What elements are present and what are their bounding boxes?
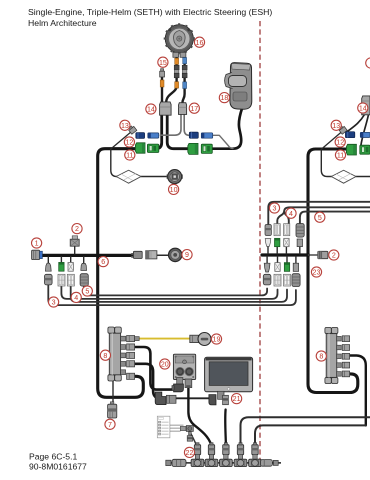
wire: helm1 bus [41, 254, 133, 257]
svg-text:10: 10 [170, 186, 178, 194]
wire: helm2 bus [262, 253, 309, 256]
mating connector 3 [45, 274, 53, 285]
svg-text:5: 5 [85, 288, 89, 296]
wire: helm2 hub port3 lead down right edge [345, 356, 366, 426]
actuator cable B inline connector with blue bands [182, 58, 187, 89]
junction hub 8 helm2 [325, 327, 350, 383]
helm separation dashed line [259, 21, 261, 466]
green harness pair (right set, to CAN pad 18) [188, 143, 213, 154]
svg-text:12: 12 [125, 139, 133, 147]
svg-text:8: 8 [319, 353, 323, 361]
wire: module 20 lead down to backbone tee 2 [188, 388, 211, 445]
label 14 helm2 [358, 103, 368, 113]
bulkhead connector 10 [167, 170, 183, 184]
network terminator cap 19 [198, 333, 211, 346]
svg-text:2: 2 [75, 225, 79, 233]
bus drop plug 4b white [68, 262, 73, 271]
wire: helm2 branch to fuse diamond [321, 150, 370, 177]
label 15 helm1 [158, 57, 168, 67]
wire: display drop to backbone tee 3 [224, 410, 227, 445]
inline elbow pair on hub lead [155, 392, 176, 405]
label 3 helm2 [269, 203, 279, 213]
helm2 blue CAN pair 12 [345, 132, 370, 138]
wire: helm2 upper feed line B [277, 207, 370, 224]
wire: hub yellow network lead [140, 338, 191, 340]
label 2 helm2 [329, 250, 339, 260]
svg-text:9: 9 [185, 251, 189, 259]
label 5 helm1 [82, 286, 92, 296]
fuse holder diamond helm1 [116, 170, 141, 183]
backbone tee 2 [205, 443, 218, 467]
label 12 helm1 [124, 137, 134, 147]
hub ports and mating plugs [121, 336, 140, 342]
battery lead connector 7 [108, 402, 117, 418]
helm2 lower drop B white [275, 263, 280, 272]
data harness connector 1 [32, 250, 43, 259]
backbone tee 1 [191, 443, 204, 467]
blue CAN pair 12 (left set) [136, 133, 159, 139]
backbone tee 3 [220, 443, 233, 467]
inset tee detail [180, 426, 193, 442]
svg-text:20: 20 [161, 361, 169, 369]
wire: bus drop stubs [48, 257, 83, 264]
svg-text:4: 4 [289, 210, 293, 218]
wire: backbone tee4 riser to engine run [241, 417, 370, 444]
svg-text:12: 12 [336, 139, 344, 147]
wire: helm2 module cables into blue/green pairs [347, 115, 369, 145]
label 20 [160, 359, 170, 369]
svg-text:11: 11 [126, 152, 133, 160]
helm2 lower mate B [274, 274, 281, 286]
svg-text:14: 14 [147, 106, 155, 114]
label 23 [311, 267, 321, 277]
steering sensor connector 15 [160, 69, 165, 87]
label 9 [182, 250, 192, 260]
helm2 lower drop A [264, 263, 270, 272]
green harness pair 11 (left set) [135, 143, 158, 153]
elbow connector under module 20 [172, 378, 184, 392]
svg-text:5: 5 [318, 214, 322, 222]
wire: long run helm1-3 to helm2 [48, 285, 296, 306]
wire: blue pair 2 pigtail into harness [213, 135, 233, 148]
label 10 [169, 184, 179, 194]
svg-text:18: 18 [220, 94, 228, 102]
mating connector 4b [67, 274, 74, 286]
label 15 helm2 partial at edge [366, 58, 370, 68]
label 6 [98, 257, 108, 267]
harness connector 13 [128, 125, 137, 134]
wire: main helm1 harness from green pair down and U-turn into hub port 5 [98, 149, 144, 398]
junction hub 8 helm1 [108, 327, 139, 381]
wire: helm2 upper feed line A [268, 202, 370, 225]
wire: start/stop lead to connector 9 [157, 254, 169, 256]
helm2 upper mate D [297, 239, 302, 247]
label 5 helm2 [315, 212, 325, 222]
wire: steering sensor cable 15 [161, 77, 163, 103]
svg-text:11: 11 [337, 152, 344, 160]
network terminator connector [190, 335, 199, 342]
label 22 [184, 447, 194, 457]
label 8 helm1 [100, 350, 110, 360]
wire: backbone trunk [167, 462, 282, 464]
svg-text:13: 13 [121, 122, 129, 130]
helm2 harness connector 13 [338, 125, 347, 134]
electric steering actuator 16 [165, 24, 194, 57]
helm2 upper row plug D [296, 224, 304, 238]
svg-text:Single-Engine, Triple-Helm (SE: Single-Engine, Triple-Helm (SETH) with E… [28, 7, 272, 17]
helm2 upper row plug B [274, 224, 280, 236]
wire: adaptor 17 right leg to blue pair 2 [184, 115, 189, 136]
wire: helm2 upper feed line C [300, 212, 370, 224]
wire: actuator cable B blue [182, 57, 184, 103]
wire: adaptor 14 right leg to green pair 2 [167, 115, 189, 149]
helm2 ignition connector 2 [318, 251, 328, 258]
label 14 helm1 [146, 104, 156, 114]
backbone tee 5 [249, 443, 262, 467]
svg-text:3: 3 [273, 205, 277, 213]
wire: adaptor 17 left leg to blue pair 1 [161, 115, 182, 136]
helm2 lower mate D [292, 274, 300, 287]
module 20 display lead plug [185, 379, 192, 388]
helm2 lower drop C green [284, 263, 289, 272]
label 16 [194, 37, 204, 47]
wire: adaptor 14 left leg to green pair 1 [156, 115, 162, 149]
wire: long run helm1-4a to helm2 [61, 286, 277, 299]
backbone left terminator [166, 459, 186, 466]
label 13 helm2 [331, 120, 341, 130]
helm2 adaptor module 14 (partial at edge) [362, 96, 370, 115]
helm2 upper row plug A [265, 225, 271, 236]
wire: inline pair to display elbow [176, 397, 211, 399]
blue CAN pair (right set, under 17) [189, 132, 212, 138]
wiring legend inset box [157, 416, 183, 438]
helm2 lower mate C [284, 274, 291, 286]
helm2 upper mate A [265, 239, 271, 247]
svg-text:23: 23 [313, 269, 321, 277]
helm interface module 20 [173, 354, 195, 379]
CAN trackpad device 18 [225, 63, 252, 110]
wire: inset tee lead to backbone tee 1 [191, 434, 197, 446]
bus drop plug 4a green [59, 262, 64, 271]
backbone tee 4 [234, 443, 247, 467]
svg-text:2: 2 [332, 252, 336, 260]
wire: connector 13 pigtail diagonal [111, 132, 132, 150]
helm2 green harness pair 11 [346, 144, 370, 155]
label 4 helm1 [71, 292, 81, 302]
vesselview display 21 [205, 357, 253, 392]
svg-text:21: 21 [233, 395, 241, 403]
helm2 lower mate A [263, 274, 271, 285]
wire: long run helm1-4b to helm2 [71, 286, 287, 302]
bus drop plug 3a [45, 263, 51, 271]
helm2 upper mate C white [284, 238, 289, 246]
label 11 helm2 [335, 150, 345, 160]
wire: CAN pad 18 cable to green pair 2 [213, 109, 242, 149]
label 8 helm2 [316, 351, 326, 361]
svg-text:22: 22 [186, 449, 194, 457]
svg-text:Page 6C-5.1: Page 6C-5.1 [29, 452, 77, 462]
label 7 [105, 419, 115, 429]
backbone right terminator [260, 460, 278, 467]
wire: long run helm1-5 to helm2 [84, 286, 267, 296]
wire: branch to fuse diamond and connector 10 [111, 150, 169, 177]
label 13 helm1 [120, 120, 130, 130]
actuator cable A inline connector with orange bands [174, 58, 179, 88]
svg-text:17: 17 [190, 105, 198, 113]
svg-text:4: 4 [74, 294, 78, 302]
bus drop plug 5a [81, 263, 87, 270]
svg-text:15: 15 [159, 59, 167, 67]
wire: hub bottom stub to connector 7 [112, 382, 114, 405]
label 18 [219, 93, 229, 103]
wire: main helm2 harness from green pair down and U-turn into hub port 5 [308, 149, 358, 393]
label 2 helm1 [72, 224, 82, 234]
ignition/run connector 2 [70, 236, 79, 246]
mating connector 5 [80, 274, 88, 286]
wire: actuator cable A orange [166, 57, 176, 102]
steering adaptor harness module 14 [160, 102, 172, 115]
wire: helm2 bus stubs up and down [267, 246, 300, 264]
svg-text:7: 7 [108, 421, 112, 429]
helm2 upper mate B green [275, 238, 280, 246]
wire: backbone tee5 riser to helm2 hub [255, 425, 366, 444]
elbow connector under display [209, 391, 229, 405]
helm2 lower drop D [293, 263, 298, 271]
svg-text:90-8M0161677: 90-8M0161677 [29, 462, 87, 472]
svg-text:16: 16 [196, 39, 204, 47]
svg-text:8: 8 [103, 352, 107, 360]
svg-text:Helm Architecture: Helm Architecture [28, 18, 97, 28]
label 1 [31, 238, 41, 248]
svg-text:13: 13 [332, 122, 340, 130]
wire: hub port2 lead to module 20 elbow [134, 347, 173, 390]
mating connector 4a [58, 274, 65, 286]
helm2 upper row plug C [284, 224, 290, 236]
label 12 helm2 [335, 137, 345, 147]
wire: hub port4 lead to inline pair [134, 364, 165, 399]
wire: lead to helm2 connector 2 [309, 254, 318, 256]
svg-text:3: 3 [52, 299, 56, 307]
svg-text:19: 19 [213, 336, 221, 344]
label 19 [211, 334, 221, 344]
label 17 [189, 103, 199, 113]
steering adaptor harness module 17 [179, 103, 187, 115]
helm2 fuse holder diamond [331, 170, 356, 183]
label 21 [232, 394, 242, 404]
label 3 helm1 [49, 297, 59, 307]
svg-text:1: 1 [35, 240, 39, 248]
start/stop switch 9 [169, 248, 182, 261]
svg-text:14: 14 [359, 105, 367, 113]
label 4 helm2 [286, 208, 296, 218]
label 11 helm1 [125, 150, 135, 160]
wire: helm2 connector 13 pigtail diagonal [321, 132, 342, 150]
start/stop inline connector small [131, 251, 142, 258]
svg-text:6: 6 [101, 258, 105, 266]
start/stop inline connector rect [146, 251, 157, 259]
wire: bus stub to connector 2 [74, 246, 76, 255]
